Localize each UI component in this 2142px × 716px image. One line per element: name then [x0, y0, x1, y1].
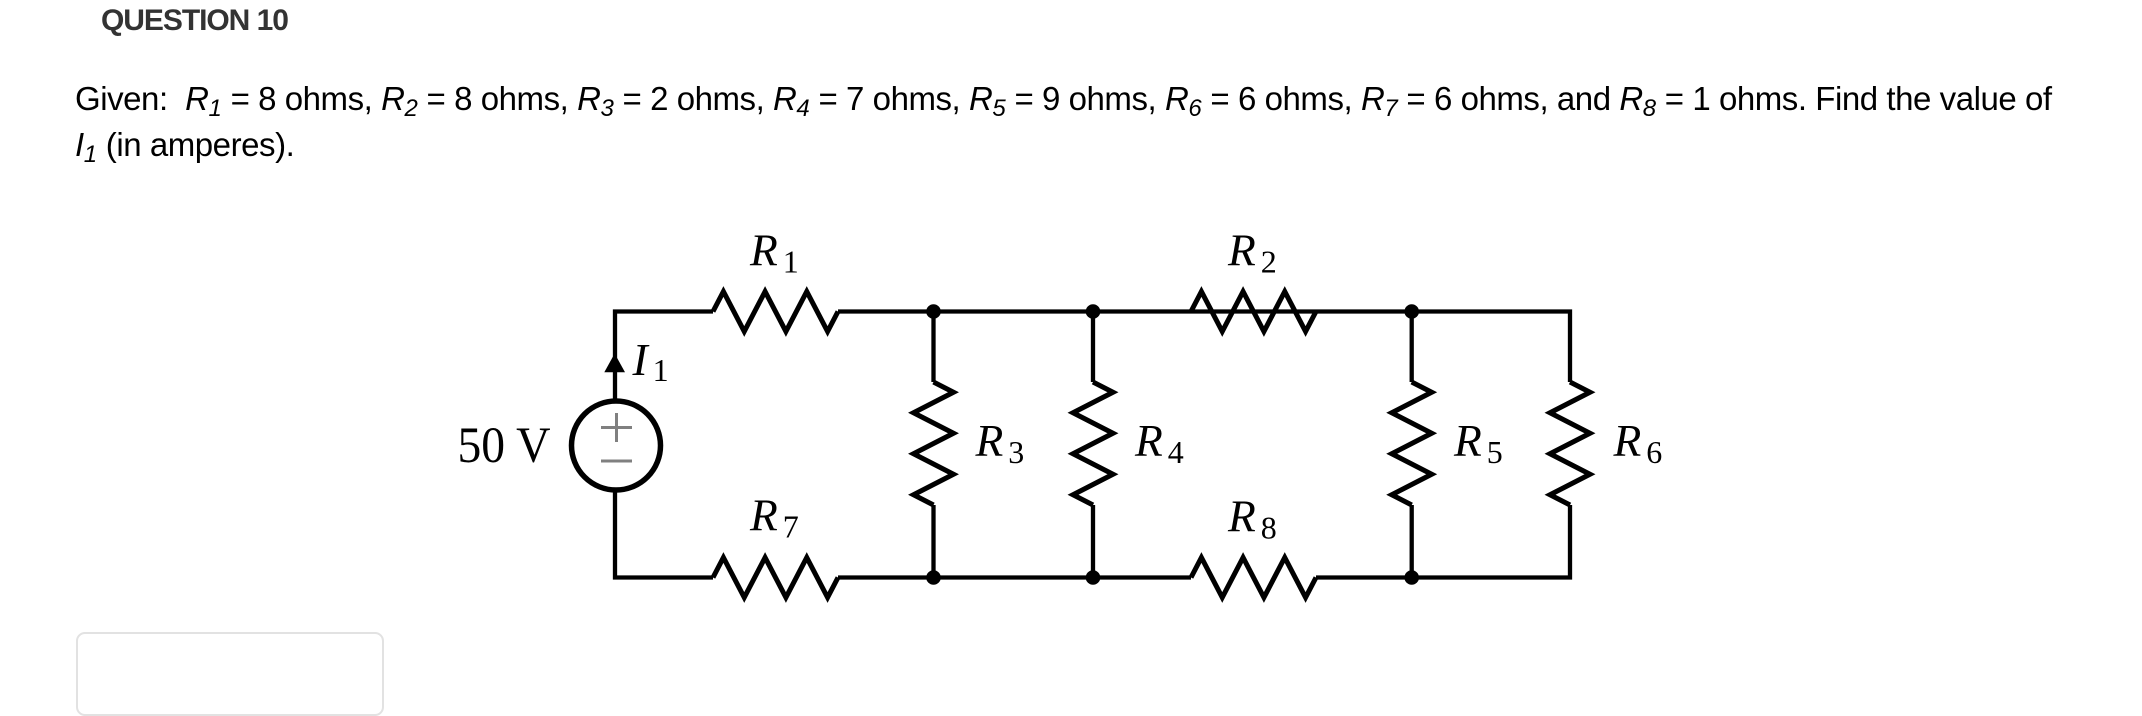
svg-text:R4: R4: [1134, 415, 1184, 470]
svg-text:R7: R7: [749, 490, 799, 545]
svg-text:R8: R8: [1227, 491, 1277, 546]
svg-text:I1: I1: [632, 334, 669, 388]
svg-text:R2: R2: [1227, 225, 1277, 280]
svg-text:R5: R5: [1453, 415, 1503, 470]
svg-text:R6: R6: [1613, 415, 1663, 470]
svg-text:R1: R1: [749, 225, 799, 280]
svg-text:50 V: 50 V: [458, 418, 551, 474]
svg-text:R3: R3: [975, 415, 1025, 470]
